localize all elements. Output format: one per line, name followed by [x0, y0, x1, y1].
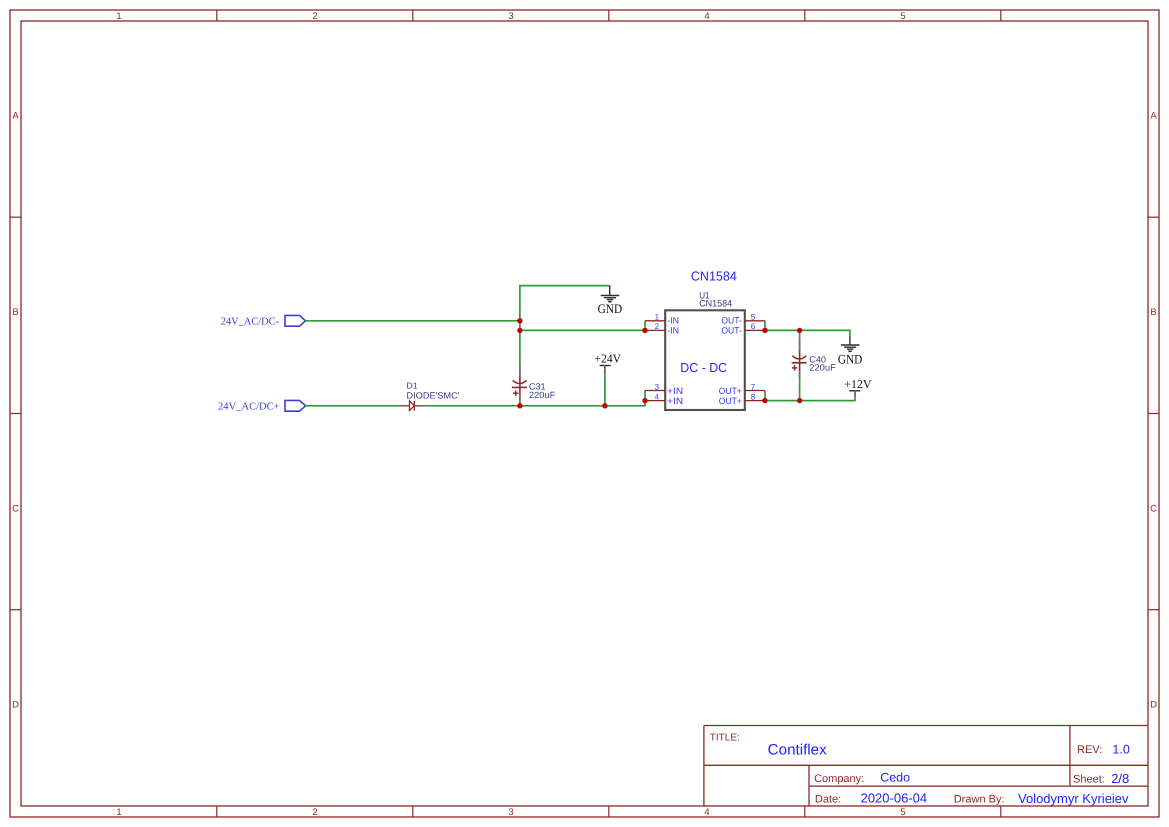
- pin 3: [645, 390, 665, 392]
- frame row letters right: [1150, 111, 1157, 711]
- svg-text:+IN: +IN: [667, 396, 683, 406]
- frame zone ticks bottom: [217, 806, 1001, 817]
- svg-text:1.0: 1.0: [1112, 742, 1129, 756]
- svg-text:REV:: REV:: [1077, 744, 1102, 756]
- svg-text:C: C: [12, 503, 19, 514]
- svg-text:4: 4: [704, 807, 709, 818]
- svg-text:+24V: +24V: [595, 352, 622, 366]
- pin 2: [645, 329, 665, 331]
- wire pin5 to pin6 vertical: [764, 321, 766, 331]
- svg-text:7: 7: [751, 382, 756, 391]
- svg-text:B: B: [12, 307, 18, 318]
- pin 5: [745, 320, 765, 322]
- wire diode to +IN riser: [424, 391, 645, 406]
- svg-text:6: 6: [751, 322, 756, 331]
- power symbol +24V: [600, 366, 611, 376]
- power symbol GND (right): [841, 336, 860, 351]
- svg-text:D: D: [12, 700, 19, 711]
- frame zone ticks right: [1148, 217, 1159, 610]
- svg-text:C: C: [1150, 503, 1157, 514]
- frame column numbers bottom: [116, 807, 905, 818]
- svg-text:-IN: -IN: [667, 316, 679, 326]
- svg-text:B: B: [1150, 307, 1156, 318]
- svg-text:DC - DC: DC - DC: [680, 360, 727, 375]
- junction pin4: [642, 398, 647, 403]
- svg-text:3: 3: [508, 807, 513, 818]
- svg-text:1: 1: [116, 807, 121, 818]
- wire +24V riser: [604, 375, 606, 406]
- pin 1: [645, 320, 665, 322]
- svg-text:5: 5: [900, 11, 905, 22]
- junction pin2: [642, 328, 647, 333]
- pin 8: [745, 400, 765, 402]
- junction C40 top: [797, 328, 802, 333]
- svg-text:CN1584: CN1584: [699, 298, 732, 309]
- svg-text:5: 5: [900, 807, 905, 818]
- svg-text:Sheet:: Sheet:: [1073, 774, 1105, 786]
- wire pin7 to pin8 vertical: [764, 391, 766, 401]
- junction port- / C31 column: [517, 318, 522, 323]
- wire C40 bottom: [799, 379, 801, 400]
- svg-text:Company:: Company:: [814, 773, 864, 785]
- svg-text:24V_AC/DC+: 24V_AC/DC+: [218, 402, 280, 413]
- capacitor C31: [512, 365, 527, 404]
- diode D1: [400, 401, 424, 411]
- frame zone ticks left: [10, 217, 21, 610]
- svg-text:D1: D1: [407, 381, 418, 391]
- svg-text:2/8: 2/8: [1111, 771, 1129, 786]
- svg-text:D: D: [1150, 700, 1157, 711]
- junction +24V: [602, 403, 607, 408]
- svg-text:DIODE'SMC': DIODE'SMC': [407, 390, 460, 400]
- wire -IN rail: [520, 329, 645, 331]
- svg-text:OUT-: OUT-: [721, 325, 741, 335]
- wire port- to C31 column: [306, 320, 520, 322]
- power symbol GND (left): [601, 286, 620, 302]
- junction pin8: [762, 398, 767, 403]
- junction C31 bottom: [517, 403, 522, 408]
- svg-text:220uF: 220uF: [809, 363, 836, 373]
- svg-text:CN1584: CN1584: [691, 269, 737, 284]
- IC U1 CN1584 box: [665, 310, 745, 410]
- wire pin1 to pin2 vertical: [644, 321, 646, 331]
- frame zone ticks top: [217, 10, 1001, 21]
- svg-text:3: 3: [655, 382, 660, 391]
- svg-text:OUT+: OUT+: [719, 396, 742, 406]
- svg-text:2: 2: [655, 322, 660, 331]
- svg-text:GND: GND: [598, 301, 623, 316]
- svg-text:-IN: -IN: [667, 325, 679, 335]
- junction -IN rail / C31 column: [517, 328, 522, 333]
- svg-text:1: 1: [116, 11, 121, 22]
- pin 4: [645, 400, 665, 402]
- svg-text:A: A: [1150, 111, 1157, 122]
- svg-text:TITLE:: TITLE:: [710, 732, 740, 743]
- svg-text:Drawn By:: Drawn By:: [954, 793, 1005, 805]
- hierarchical port 24V_AC/DC+: [218, 400, 306, 412]
- frame column numbers top: [116, 11, 905, 22]
- junction dots: [517, 318, 802, 408]
- svg-text:2020-06-04: 2020-06-04: [861, 791, 928, 806]
- svg-text:1: 1: [655, 313, 660, 322]
- svg-text:Date:: Date:: [815, 794, 841, 806]
- svg-text:4: 4: [655, 392, 660, 401]
- svg-text:GND: GND: [838, 351, 863, 366]
- pin 6: [745, 329, 765, 331]
- pin 7: [745, 390, 765, 392]
- svg-text:A: A: [12, 111, 19, 122]
- wire C40 top: [799, 330, 801, 340]
- frame row letters left: [12, 111, 19, 711]
- capacitor C40: [792, 340, 807, 379]
- svg-text:+IN: +IN: [667, 386, 683, 396]
- junction C40 bottom: [797, 398, 802, 403]
- wire OUT+ rail to +12V riser: [765, 397, 855, 401]
- svg-text:220uF: 220uF: [529, 390, 556, 400]
- svg-text:5: 5: [751, 313, 756, 322]
- svg-text:3: 3: [508, 11, 513, 22]
- svg-text:2: 2: [312, 807, 317, 818]
- svg-text:Volodymyr Kyrieiev: Volodymyr Kyrieiev: [1018, 791, 1129, 806]
- svg-text:8: 8: [751, 392, 756, 401]
- svg-text:24V_AC/DC-: 24V_AC/DC-: [221, 317, 280, 328]
- hierarchical port 24V_AC/DC-: [221, 315, 306, 327]
- svg-text:Cedo: Cedo: [880, 771, 910, 785]
- wire OUT- rail to GND2 drop: [765, 330, 850, 336]
- svg-text:4: 4: [704, 11, 709, 22]
- svg-text:2: 2: [312, 11, 317, 22]
- wire port+ to diode: [306, 405, 401, 407]
- svg-text:Contiflex: Contiflex: [768, 741, 828, 758]
- svg-text:+12V: +12V: [844, 377, 872, 391]
- junction pin6: [762, 328, 767, 333]
- wire GND branch with C31 column vertical: [520, 286, 610, 366]
- svg-text:OUT-: OUT-: [721, 316, 741, 326]
- svg-text:OUT+: OUT+: [719, 386, 742, 396]
- power symbol +12V: [849, 391, 860, 397]
